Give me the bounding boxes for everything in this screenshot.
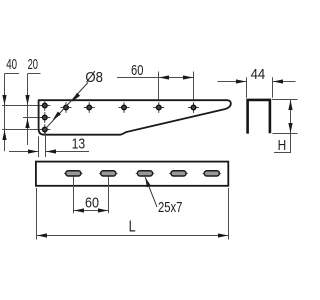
dimension 60 top extension line A <box>158 72 160 100</box>
dimension 60 bottom arrow left <box>74 208 84 212</box>
svg-text:Ø8: Ø8 <box>85 69 103 86</box>
extension line hole row 1 <box>2 105 40 107</box>
dimension 13 arrow left <box>28 149 38 153</box>
svg-text:40: 40 <box>6 56 17 73</box>
hole top row 5 <box>188 102 199 113</box>
svg-text:L: L <box>129 218 136 235</box>
slot 2 <box>99 171 118 176</box>
dimension 40 arrow down <box>2 95 6 105</box>
dimension 60 top line <box>117 77 194 79</box>
hole top row 2 <box>84 102 95 113</box>
dimension 60 top extension line B <box>193 72 195 100</box>
hole column 1 <box>39 100 50 111</box>
dimension 40 arrow up <box>2 130 6 140</box>
dimension 60 bottom arrow right <box>98 208 108 212</box>
dimension H line <box>274 100 291 153</box>
hole column 3 <box>39 124 50 135</box>
leader diameter 8 arrow 1 <box>72 93 80 102</box>
dimension 60 top arrow right <box>183 75 193 79</box>
dimension L arrow right <box>218 233 228 237</box>
slot 5 <box>203 171 222 176</box>
dimension H arrow down <box>288 123 292 133</box>
leader slot size 25x7 <box>145 177 157 207</box>
svg-text:20: 20 <box>28 56 38 73</box>
dimension 60 bottom extension line A <box>73 177 75 214</box>
svg-text:13: 13 <box>72 135 86 152</box>
leader diameter 8 arrow 2 <box>53 111 61 120</box>
svg-text:44: 44 <box>251 66 266 83</box>
dimension 60 bottom line <box>74 210 109 212</box>
bracket side view outline <box>39 100 231 135</box>
dimension 44 line right <box>273 81 296 83</box>
dimension L line <box>37 235 229 237</box>
dimension 20 arrow up <box>25 118 29 128</box>
dimension 44 arrow right <box>273 79 283 83</box>
hole top row 4 <box>153 102 164 113</box>
svg-text:60: 60 <box>85 195 99 212</box>
dimension 13 line right <box>46 151 90 153</box>
extension line hole row 3 <box>2 129 40 131</box>
leader diameter 8 <box>46 83 88 129</box>
slot 4 <box>169 171 188 176</box>
svg-text:60: 60 <box>131 62 143 79</box>
dimension 20 arrow down <box>25 95 29 105</box>
dimension 44 extension line A <box>246 77 248 98</box>
dimension 44 arrow left <box>236 79 246 83</box>
hole column 2 <box>39 112 50 123</box>
dimension H arrow up <box>288 100 292 110</box>
hole top row 3 <box>119 102 130 113</box>
dimension 13 extension line A <box>38 137 40 158</box>
dimension H extension line bottom <box>273 133 298 135</box>
dimension 13 line left <box>9 151 39 153</box>
dimension 60 bottom extension line B <box>108 177 110 214</box>
svg-text:25x7: 25x7 <box>158 199 182 216</box>
dimension 40 line <box>5 74 20 152</box>
dimension H extension line top <box>272 99 298 101</box>
dimension L extension line B <box>228 188 230 240</box>
bar front view outline <box>36 162 228 186</box>
dimension L arrow left <box>37 233 47 237</box>
hole top row 1 <box>61 102 72 113</box>
channel profile view <box>248 100 270 134</box>
dimension 13 arrow right <box>46 149 56 153</box>
dimension L extension line A <box>36 188 38 240</box>
dimension 44 extension line B <box>272 77 274 98</box>
dimension 13 extension line B <box>45 132 47 157</box>
extension line hole row 2 <box>23 117 40 119</box>
dimension 20 line <box>28 74 41 146</box>
slot 1 <box>64 171 83 176</box>
slot 3 <box>136 171 155 176</box>
dimension 44 line left <box>218 81 247 83</box>
svg-text:H: H <box>278 137 287 154</box>
leader 25x7 arrow <box>145 177 151 187</box>
dimension 60 top arrow left <box>159 75 169 79</box>
